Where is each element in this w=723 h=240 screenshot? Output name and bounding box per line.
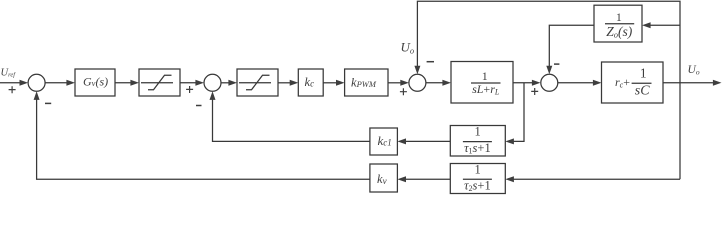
svg-text:sC: sC xyxy=(635,84,650,99)
arrowhead up into S1 bottom xyxy=(34,91,40,100)
arrowhead into kc xyxy=(290,80,299,86)
block kv voltage feedback gain xyxy=(370,164,398,192)
arrowhead into kPWM xyxy=(336,80,345,86)
svg-text:τ2s+1: τ2s+1 xyxy=(464,179,491,194)
svg-text:τ1s+1: τ1s+1 xyxy=(464,141,491,156)
wire limiter1 to S2 xyxy=(180,82,197,84)
arrowhead left into tau1 filter xyxy=(505,138,514,144)
arrowhead into capacitor block xyxy=(593,80,602,86)
svg-text:rc+: rc+ xyxy=(615,75,630,90)
summing junction S3 xyxy=(409,74,426,91)
arrowhead left into tau2 filter xyxy=(505,176,514,182)
block 1/(tau1 s+1) current filter xyxy=(450,126,505,157)
arrowhead into limiter1 xyxy=(130,80,139,86)
wire S4 to capacitor block xyxy=(558,82,595,84)
plus sign at S2 xyxy=(186,86,193,93)
plus sign at S3 xyxy=(400,88,407,95)
arrowhead into limiter2 xyxy=(228,80,237,86)
wire capacitor block to output with node at x=680 xyxy=(663,82,715,84)
wire S1 to Gv xyxy=(45,82,68,84)
block kc1 current feedback gain xyxy=(370,128,398,155)
wire S2 to limiter2 xyxy=(221,82,230,84)
wire tau1 filter to kc1 xyxy=(405,140,450,142)
arrowhead output Uo xyxy=(713,80,722,86)
svg-text:1: 1 xyxy=(474,125,480,139)
block rc+1/sC capacitor xyxy=(602,62,664,103)
block 1/Zo(s) load xyxy=(594,5,642,42)
svg-text:Uo: Uo xyxy=(688,64,700,77)
svg-text:Uo: Uo xyxy=(401,39,415,55)
block 1/(tau2 s+1) voltage filter xyxy=(450,164,505,194)
arrowhead left into kc1 xyxy=(397,138,406,144)
arrowhead up into S2 bottom xyxy=(210,91,216,100)
arrowhead down into S3 top xyxy=(414,66,420,75)
summing junction S1 xyxy=(28,74,45,91)
block 1/(sL+rL) inductor xyxy=(451,62,513,104)
wire voltage row into tau2 filter xyxy=(513,178,680,180)
minus sign at S4 xyxy=(554,63,559,65)
fraction bar in tau2 block xyxy=(463,178,492,180)
arrowhead left into kv xyxy=(397,176,406,182)
summing junction S2 xyxy=(204,74,221,91)
arrowhead into S3 xyxy=(400,80,409,86)
minus sign at S3 xyxy=(427,61,434,63)
arrowhead into S4 xyxy=(532,80,541,86)
wire limiter2 to kc xyxy=(278,82,291,84)
fraction bar in Zo block xyxy=(605,23,634,25)
wire kc1 across to S2 and up xyxy=(213,98,370,141)
wire Uo feedback top: node up, across, down into S3 xyxy=(417,1,680,83)
svg-text:Gv(s): Gv(s) xyxy=(83,75,108,89)
plus sign at S4 xyxy=(531,88,538,95)
svg-text:1: 1 xyxy=(474,162,480,176)
arrowhead into inductor block xyxy=(442,80,451,86)
wire node branch into 1/Zo(s) xyxy=(650,24,681,26)
svg-text:Zo(s): Zo(s) xyxy=(606,24,633,40)
wire Gv to limiter1 xyxy=(115,82,132,84)
limiter block 1 xyxy=(139,69,180,96)
wire Uref input to S1 xyxy=(0,82,21,84)
limiter block 2 xyxy=(237,69,278,96)
minus sign at S2 xyxy=(196,105,202,107)
wire 1/Zo(s) output down into S4 xyxy=(549,25,594,67)
limiter 2 saturation glyph xyxy=(239,75,271,90)
wire tau2 filter to kv xyxy=(405,178,450,180)
wire kc to kPWM xyxy=(323,82,337,84)
arrowhead into Gv xyxy=(66,80,75,86)
wire inductor block to S4 with tap junction at x=524 xyxy=(513,82,534,84)
wire kv across to S1 and up xyxy=(37,98,370,179)
fraction bar in tau1 block xyxy=(463,141,492,143)
arrowhead into S2 xyxy=(195,80,204,86)
arrowhead into S1 xyxy=(20,80,29,86)
fraction bar in inductor block xyxy=(471,82,501,84)
summing junction S4 xyxy=(541,74,558,91)
block kPWM xyxy=(345,69,388,96)
limiter 1 saturation glyph xyxy=(141,75,173,90)
svg-text:1: 1 xyxy=(616,10,622,24)
wire node down to voltage feedback row xyxy=(679,83,681,179)
wire S3 to inductor block xyxy=(426,82,444,84)
block kc xyxy=(298,69,323,96)
minus sign at S1 xyxy=(45,102,51,104)
fraction bar in capacitor block xyxy=(632,82,652,84)
svg-text:1: 1 xyxy=(640,66,647,81)
wire current tap down and into tau1 filter xyxy=(513,83,524,142)
arrowhead down into S4 top xyxy=(546,66,552,75)
arrowhead left into 1/Zo(s) xyxy=(642,22,651,28)
svg-text:Uref: Uref xyxy=(1,68,17,79)
block Gv(s) voltage regulator xyxy=(75,69,115,96)
wire kPWM to S3 xyxy=(388,82,402,84)
plus sign at S1 xyxy=(9,86,16,93)
